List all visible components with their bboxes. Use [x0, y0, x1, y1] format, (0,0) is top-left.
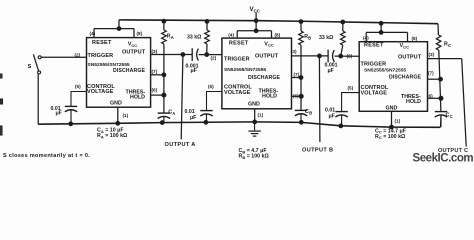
wire U2 supply drop: [255, 21, 257, 31]
svg-text:GND: GND: [386, 106, 398, 112]
resistor RB: [300, 22, 302, 31]
svg-text:OUTPUT: OUTPUT: [122, 50, 146, 56]
svg-text:(2): (2): [347, 54, 353, 59]
svg-text:CA: CA: [168, 109, 175, 115]
svg-text:RESET: RESET: [92, 40, 112, 46]
svg-text:(7): (7): [428, 71, 434, 76]
svg-text:VOLTAGE: VOLTAGE: [87, 89, 114, 95]
junction U2 discharge: [299, 76, 303, 80]
svg-text:VCC: VCC: [264, 41, 274, 47]
svg-text:(7): (7): [294, 72, 300, 77]
svg-text:RC: RC: [444, 42, 451, 48]
svg-text:SN52555/SN72555: SN52555/SN72555: [224, 67, 266, 73]
switch S arm: [33, 54, 38, 71]
junction 0.01-1 ground: [69, 122, 73, 126]
svg-text:RESET: RESET: [364, 43, 384, 49]
junction RB-rail: [299, 20, 303, 24]
resistor RA: [163, 21, 165, 30]
scan edge marks: [0, 99, 3, 104]
wire U3 reset/vcc tee: [366, 31, 407, 33]
svg-text:OUTPUT: OUTPUT: [255, 54, 279, 60]
svg-text:(4): (4): [363, 36, 369, 41]
ground symbol: [254, 122, 256, 131]
junction U1 gnd rail: [116, 121, 120, 125]
junction CB ground: [299, 120, 303, 124]
svg-text:HOLD: HOLD: [130, 95, 145, 101]
junction U3 tee: [379, 31, 383, 35]
op-amp U3 timer SN52555/SN72555 box: [359, 42, 427, 112]
svg-text:0.01: 0.01: [325, 108, 335, 114]
wire U2 reset/vcc tee: [237, 30, 271, 32]
wire U3 discharge: [428, 78, 441, 80]
svg-text:OUTPUT A: OUTPUT A: [165, 142, 196, 148]
svg-text:(4): (4): [90, 31, 96, 36]
svg-text:(5): (5): [348, 85, 354, 90]
wire RC to discharge/threshold column: [439, 50, 441, 111]
svg-text:DISCHARGE: DISCHARGE: [248, 75, 280, 81]
junction 0.01-3 ground: [339, 124, 343, 128]
svg-text:GND: GND: [248, 102, 260, 108]
svg-text:μF: μF: [191, 68, 197, 74]
svg-text:TRIGGER: TRIGGER: [224, 57, 250, 63]
junction RA-rail: [162, 19, 166, 23]
wire rail drop to U1 supply tee: [118, 20, 120, 29]
junction U2 threshold: [299, 94, 303, 98]
wire U1 threshold: [151, 94, 164, 96]
svg-text:CB: CB: [305, 109, 312, 115]
wire rail corner to RC: [437, 24, 439, 35]
wire U1 reset/vcc tee: [94, 28, 134, 30]
svg-text:DISCHARGE: DISCHARGE: [113, 68, 145, 74]
wire U1 control voltage: [71, 92, 87, 107]
wire 33k-2 to trigger node: [341, 45, 343, 56]
svg-text:33 kΩ: 33 kΩ: [319, 35, 333, 41]
wire U2 gnd drop: [254, 109, 256, 122]
svg-text:HOLD: HOLD: [406, 99, 421, 105]
wire U3 control voltage: [342, 93, 360, 112]
svg-text:(5): (5): [75, 84, 81, 89]
wire VCC top rail: [119, 20, 438, 24]
svg-text:TRIGGER: TRIGGER: [88, 53, 114, 59]
wire RB to discharge/threshold column: [300, 45, 302, 110]
svg-text:RC = 100 kΩ: RC = 100 kΩ: [375, 134, 406, 140]
wire U1 pin8 drop: [133, 29, 135, 38]
wire ground bottom rail: [38, 122, 440, 127]
junction output A tap: [181, 53, 185, 57]
svg-text:OUTPUT B: OUTPUT B: [302, 148, 333, 154]
svg-text:VCC: VCC: [128, 42, 138, 48]
wire U3 pin4 drop: [365, 32, 367, 41]
capacitor 0.001uF coupling 1-2: [191, 48, 193, 61]
capacitor CC timing: [435, 111, 447, 113]
junction 33k-2 rail: [341, 20, 345, 24]
svg-text:GND: GND: [110, 101, 122, 107]
svg-text:RA = 100 kΩ: RA = 100 kΩ: [97, 133, 128, 139]
svg-text:TRIGGER: TRIGGER: [361, 62, 387, 68]
resistor 33k pull-up U2 trigger: [206, 21, 208, 30]
capacitor CA timing: [158, 112, 170, 114]
svg-text:VOLTAGE: VOLTAGE: [361, 91, 388, 97]
svg-text:RESET: RESET: [229, 40, 249, 46]
wire U1 pin4 drop: [93, 29, 95, 38]
svg-text:S: S: [28, 64, 32, 70]
switch S lower contact: [38, 71, 41, 74]
wire RA to discharge/threshold column: [163, 44, 165, 113]
capacitor CB timing: [295, 109, 307, 111]
svg-text:μF: μF: [328, 68, 334, 74]
capacitor 0.01uF U2 control: [200, 110, 212, 112]
junction 33k-2 trigger node: [339, 54, 343, 58]
svg-text:(1): (1): [123, 113, 129, 118]
wire cap to U3 trigger: [335, 55, 360, 57]
wire rail corner to CC: [439, 116, 442, 127]
op-amp U1 timer SN52555/SN72555 box: [87, 38, 151, 108]
junction U1 discharge: [162, 73, 166, 77]
wire U3 output: [428, 58, 462, 60]
node OUTPUT C wire: [462, 59, 467, 147]
node OUTPUT B wire: [318, 56, 321, 142]
junction U2 gnd rail: [253, 120, 257, 124]
wire U1 gnd drop: [117, 107, 119, 123]
svg-text:RB = 100 kΩ: RB = 100 kΩ: [239, 154, 270, 160]
svg-text:(4): (4): [228, 33, 234, 38]
wire VCC stub: [255, 12, 257, 20]
junction U3 gnd rail: [390, 125, 394, 129]
svg-text:HOLD: HOLD: [262, 94, 277, 100]
junction U2 tee: [254, 29, 258, 33]
switch S upper contact: [38, 56, 41, 59]
wire switch to U1 trigger: [41, 56, 86, 58]
svg-text:RA: RA: [167, 34, 174, 40]
svg-text:(5): (5): [208, 84, 214, 89]
svg-text:(1): (1): [395, 118, 401, 123]
junction CA ground: [160, 121, 164, 125]
wire U3 threshold: [428, 97, 442, 99]
junction U3 discharge: [439, 77, 443, 81]
capacitor 0.01uF U1 control: [65, 105, 77, 107]
svg-text:SN52555/SN72555: SN52555/SN72555: [364, 68, 406, 74]
junction U1 tee: [117, 27, 121, 31]
svg-text:(7): (7): [152, 69, 158, 74]
wire U3 gnd drop: [391, 111, 393, 127]
resistor RC: [436, 35, 441, 50]
svg-text:(8): (8): [275, 33, 281, 38]
svg-text:(2): (2): [211, 56, 217, 61]
wire cap to U2 trigger: [199, 54, 222, 56]
capacitor 0.01uF U3 control: [335, 111, 347, 113]
junction U3 threshold: [439, 96, 443, 100]
svg-text:S closes momentarily at t = 0.: S closes momentarily at t = 0.: [3, 153, 90, 159]
capacitor 0.001uF coupling 2-3: [327, 50, 329, 63]
wire U2 output: [292, 55, 329, 57]
wire U3 supply drop: [380, 23, 382, 32]
svg-text:(6): (6): [152, 88, 158, 93]
svg-text:0.01: 0.01: [185, 109, 195, 115]
svg-text:33 kΩ: 33 kΩ: [187, 35, 201, 41]
svg-text:(8): (8): [137, 31, 143, 36]
wire U2 control voltage: [207, 92, 222, 111]
resistor 33k pull-up U3 trigger: [342, 22, 344, 31]
wire U2 discharge: [292, 77, 302, 79]
svg-text:(3): (3): [429, 52, 435, 57]
junction VCC-rail: [254, 19, 258, 23]
svg-text:μF: μF: [190, 115, 196, 121]
svg-text:(2): (2): [75, 52, 81, 57]
junction 0.01-2 ground: [204, 120, 208, 124]
wire U1 output: [151, 54, 192, 56]
node OUTPUT A wire: [181, 55, 183, 140]
svg-text:(8): (8): [412, 36, 418, 41]
svg-text:(1): (1): [258, 112, 264, 117]
op-amp U2 timer SN52555/SN72555 box: [222, 38, 292, 109]
wire U2 pin4 drop: [236, 31, 238, 38]
svg-text:VOLTAGE: VOLTAGE: [224, 90, 251, 96]
svg-text:RB: RB: [304, 34, 311, 40]
svg-text:VCC: VCC: [250, 6, 261, 14]
svg-text:(3): (3): [152, 49, 158, 54]
svg-text:SeekIC.com: SeekIC.com: [413, 152, 474, 162]
wire U3 pin8 drop: [407, 32, 409, 41]
junction output B tap: [318, 54, 322, 58]
wire U1 discharge: [151, 74, 164, 76]
wire U2 pin8 drop: [271, 31, 273, 38]
svg-text:DISCHARGE: DISCHARGE: [389, 75, 421, 81]
junction 33k-1 trigger node: [205, 53, 209, 57]
svg-text:μF: μF: [56, 111, 62, 117]
wire U2 threshold: [292, 95, 302, 97]
junction U3 rail tap: [379, 21, 383, 25]
svg-text:(3): (3): [291, 49, 297, 54]
svg-text:CC: CC: [446, 112, 453, 118]
svg-text:μF: μF: [329, 114, 335, 120]
svg-text:VCC: VCC: [400, 43, 410, 49]
svg-text:OUTPUT: OUTPUT: [398, 55, 422, 61]
wire switch bottom to ground rail: [37, 74, 39, 124]
wire 33k-1 to trigger node: [206, 44, 208, 55]
svg-text:SN52555/SN72555: SN52555/SN72555: [88, 62, 130, 68]
junction 33k-1 rail: [205, 20, 209, 24]
junction U1 threshold: [162, 93, 166, 97]
